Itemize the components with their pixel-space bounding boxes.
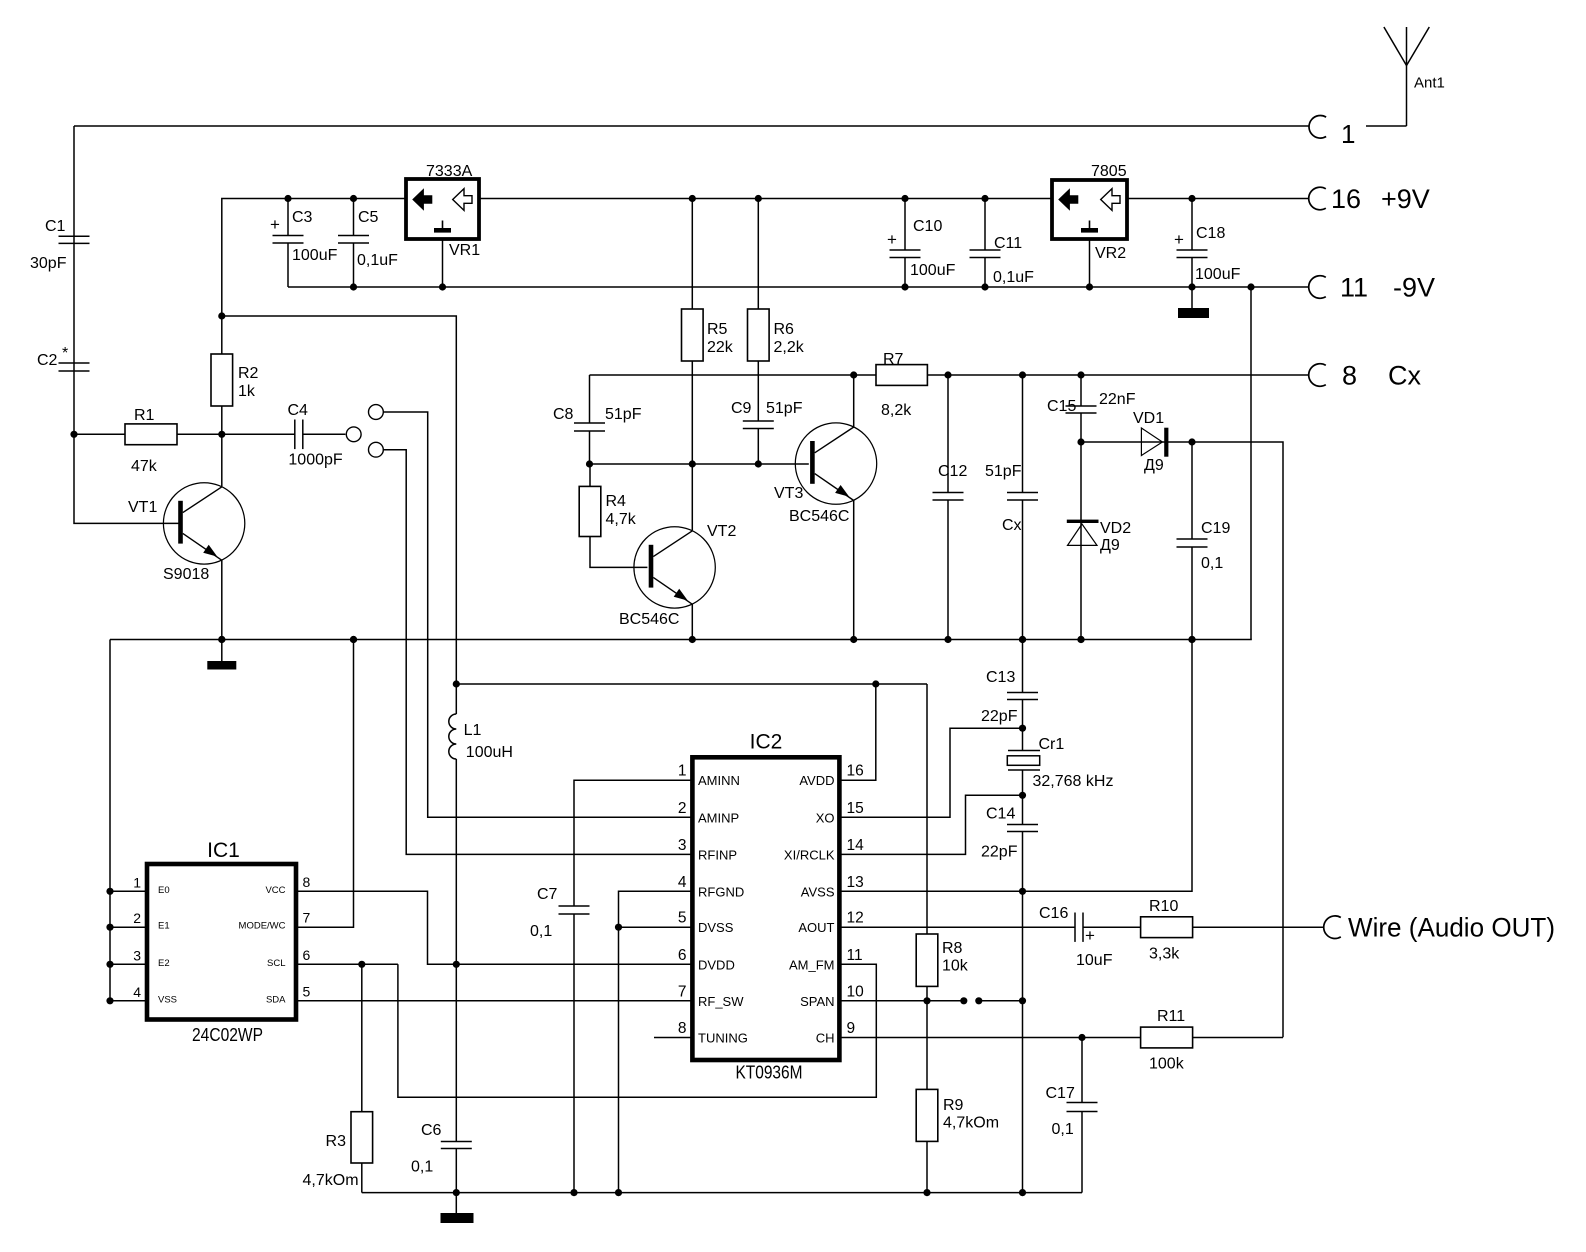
node VD1 cathode / C19 [1188,438,1195,445]
svg-text:L1: L1 [464,722,482,739]
svg-text:8: 8 [1342,361,1357,391]
capacitor C11 [970,199,1035,288]
node CH / C17 junction [1078,1034,1085,1041]
node connector 8 Cx [1309,361,1422,391]
svg-text:Cr1: Cr1 [1039,736,1065,753]
wire IC1 SDA to RF_SW [296,1000,692,1002]
svg-text:15: 15 [847,800,864,817]
node -9V vertical [1247,283,1254,290]
svg-text:Cx: Cx [1002,517,1022,534]
node R5 top [689,195,696,202]
wire IC1 VCC to DVDD node [296,891,456,964]
node Cx bottom [1019,636,1026,643]
wire IC1 SCL line [296,963,398,965]
node chain/SPAN junction [1019,997,1026,1004]
svg-text:1: 1 [133,874,141,890]
svg-text:5: 5 [303,983,311,999]
svg-text:22k: 22k [707,339,734,356]
wire bottom ground rail [362,1192,1082,1194]
pin 2 IC1 E1 [106,910,169,932]
wire VR1 ground pin [442,239,444,287]
svg-text:E2: E2 [158,958,170,969]
wire antenna line to connector 1 [74,125,1310,127]
svg-text:100k: 100k [1149,1056,1185,1073]
svg-text:BC546C: BC546C [789,508,849,525]
node C10 top [901,195,908,202]
node C18 top [1188,195,1195,202]
svg-text:22pF: 22pF [981,844,1018,861]
wire DVDD node to C6 [455,964,457,1141]
svg-text:10uF: 10uF [1076,952,1113,969]
svg-text:AVSS: AVSS [801,884,835,899]
svg-text:VR2: VR2 [1095,245,1126,262]
wire DVSS stub [619,926,693,928]
svg-text:R8: R8 [942,940,963,957]
wire SPAN line [839,1000,963,1002]
resistor R9 4,7kOm [916,1001,999,1193]
capacitor C5 [338,199,398,288]
svg-text:4,7k: 4,7k [606,511,637,528]
capacitor C9 [731,361,803,464]
node C15 bottom / VD1 anode [1077,438,1084,445]
pin 2 IC2 AMINP [678,800,739,826]
svg-text:R7: R7 [883,351,904,368]
wire RFGND/DVSS column [619,891,693,1192]
svg-text:4,7kOm: 4,7kOm [943,1115,999,1132]
svg-text:7333A: 7333A [426,163,473,180]
node connector 1 [1309,116,1355,150]
svg-text:SDA: SDA [266,994,286,1005]
svg-text:C14: C14 [986,806,1015,823]
svg-text:KT0936M: KT0936M [736,1063,803,1083]
node DVSS column bottom [615,1189,622,1196]
wire L1 bottom to DVDD node [455,759,457,964]
svg-text:0,1: 0,1 [1052,1121,1074,1138]
node pad lower [369,442,384,457]
wire CH line [839,1037,1140,1039]
transistor VT3 BC546C [774,423,877,525]
node MODE/WC rail [350,636,357,643]
svg-text:22pF: 22pF [981,708,1018,725]
node SCL/R3 junction [358,961,365,968]
svg-text:C4: C4 [288,402,309,419]
svg-text:XI/RCLK: XI/RCLK [784,847,835,862]
svg-text:S9018: S9018 [163,566,209,583]
crystal Cr1 32768 [1007,736,1113,790]
svg-text:C11: C11 [994,235,1022,252]
svg-text:9: 9 [847,1020,856,1037]
pin 7 IC2 RF_SW [678,983,744,1009]
svg-text:16: 16 [847,763,864,780]
node VT2 collector junction [689,460,696,467]
wire SCL route to AM_FM [398,964,876,1097]
regulator VR2 7805 [1052,163,1127,262]
svg-text:R4: R4 [606,493,627,510]
svg-text:7: 7 [303,910,311,926]
node AVDD branch [872,680,879,687]
svg-text:C5: C5 [358,209,379,226]
svg-text:R11: R11 [1157,1008,1185,1025]
wire pad lower to RFINP [383,450,692,855]
IC IC1 24C02WP [147,839,296,1045]
wire -9V to ground rail right vertical [1250,287,1252,640]
node C7 bottom [570,1189,577,1196]
svg-text:C10: C10 [913,218,942,235]
svg-text:7: 7 [678,983,687,1000]
svg-text:C13: C13 [986,669,1015,686]
svg-text:4: 4 [133,984,141,1000]
wire VT2 emitter to ground [691,604,693,640]
capacitor C19 [1177,442,1231,640]
node DVDD junction [453,961,460,968]
svg-text:C18: C18 [1196,225,1225,242]
svg-text:2: 2 [678,800,687,817]
wire R2 top to L1 column [222,316,456,684]
svg-text:100uH: 100uH [466,744,513,761]
capacitor Cx [1002,375,1038,640]
node C18 bottom [1188,283,1195,290]
resistor R4 4,7k [579,464,647,567]
svg-text:BC546C: BC546C [619,611,679,628]
node C11 bottom [981,283,988,290]
node C19/AVSS rail [1188,636,1195,643]
svg-text:6: 6 [678,947,687,964]
wire VT3 collector [853,375,855,427]
svg-text:R5: R5 [707,321,728,338]
node chain top rail [1019,636,1026,643]
svg-text:AMINP: AMINP [698,810,739,825]
capacitor C7 [530,886,590,1193]
node VR2 pin to -9V [1086,283,1093,290]
wire connector 1 to antenna [1366,125,1407,127]
svg-text:32,768 kHz: 32,768 kHz [1033,773,1114,790]
svg-text:100uF: 100uF [292,247,338,264]
svg-text:Д9: Д9 [1144,457,1164,474]
svg-text:14: 14 [847,837,865,854]
node VT1 emitter/ground [218,636,225,643]
pin 6 IC1 SCL [267,947,310,969]
pin 10 IC2 SPAN [800,983,864,1009]
wire 684 line [456,683,927,685]
diode VD2 D9 [1067,442,1131,640]
node R1/R2/C4 junction [218,431,225,438]
svg-text:AM_FM: AM_FM [789,957,835,972]
pin 13 IC2 AVSS [801,874,864,900]
resistor R3 4,7kOm [303,964,373,1192]
svg-text:1: 1 [1341,119,1355,149]
node chain/AVSS junction [1019,888,1026,895]
svg-text:C7: C7 [537,886,558,903]
svg-text:+: + [270,215,280,234]
capacitor C14 [981,806,1038,861]
wire R11 right [1193,1037,1283,1039]
node SPAN jumper left [960,997,967,1004]
IC IC2 KT0936M [692,731,839,1083]
capacitor C2 [37,345,90,371]
svg-text:C16: C16 [1039,905,1068,922]
wire left vertical [74,126,180,523]
pin 4 IC2 RFGND [678,874,744,900]
node XO junction [1019,725,1026,732]
node connector 16 +9V [1309,184,1430,214]
node VD2 bottom [1077,636,1084,643]
svg-text:CH: CH [816,1031,835,1046]
resistor R1 47k [74,407,222,475]
svg-text:7805: 7805 [1091,163,1127,180]
svg-text:VR1: VR1 [449,242,480,259]
svg-text:51pF: 51pF [605,406,642,423]
node pad upper [369,405,384,420]
resistor R11 100k [1141,1008,1193,1073]
svg-text:VT1: VT1 [128,499,157,516]
svg-text:16: 16 [1331,184,1361,214]
node L1 top junction [453,680,460,687]
svg-text:2: 2 [133,910,141,926]
node MODE/WC ground [350,636,357,643]
wire XO route [839,728,1022,817]
node C10 bottom [901,283,908,290]
svg-text:C9: C9 [731,400,752,417]
svg-text:IC1: IC1 [207,839,240,862]
wire MODE/WC vertical [296,640,354,928]
resistor R8 10k [916,934,969,1001]
svg-text:8: 8 [678,1020,687,1037]
svg-text:0,1: 0,1 [411,1159,433,1176]
pin 15 IC2 XO [816,800,864,826]
node C9 bottom [755,460,762,467]
wire +9V rail right segment [1127,198,1310,200]
node connector 11 -9V [1309,273,1435,303]
svg-text:-9V: -9V [1393,273,1435,303]
svg-text:47k: 47k [131,458,158,475]
svg-text:C12: C12 [938,463,967,480]
svg-text:0,1: 0,1 [1201,555,1223,572]
pin 1 IC1 E0 [106,874,169,896]
svg-text:2,2k: 2,2k [774,339,805,356]
transistor VT2 BC546C [619,523,736,628]
node SPAN jumper right [975,997,982,1004]
node VD2 rail [1077,636,1084,643]
svg-text:VT3: VT3 [774,485,803,502]
diode VD1 D9 [1081,410,1192,474]
svg-text:11: 11 [847,947,863,964]
svg-text:5: 5 [678,910,687,927]
svg-text:VSS: VSS [158,994,177,1005]
svg-text:51pF: 51pF [766,400,803,417]
svg-text:C19: C19 [1201,520,1230,537]
wire R10 to Wire connector [1193,926,1325,928]
ground below VT1 [207,640,236,670]
wire L1 top lead [455,684,457,714]
node R8 bottom / SPAN [923,997,930,1004]
svg-text:6: 6 [303,947,311,963]
svg-text:13: 13 [847,874,864,891]
node R9 bottom [923,1189,930,1196]
wire VT2-collector/VT3-base line [590,463,809,465]
svg-text:0,1: 0,1 [530,923,552,940]
pin 8 IC2 TUNING [678,1020,748,1046]
wire VD1 node to R11 vertical [1192,442,1283,1037]
node Cx top [1019,371,1026,378]
svg-text:51pF: 51pF [985,463,1022,480]
pin 8 IC1 VCC [265,874,310,896]
svg-text:10: 10 [847,983,865,1000]
capacitor C12 [933,375,1022,640]
pin 1 IC2 AMINN [678,763,740,789]
pin 5 IC2 DVSS [678,910,734,936]
wire XI/RCLK route [839,795,1022,854]
node C8 bottom [586,460,593,467]
svg-text:22nF: 22nF [1099,391,1136,408]
capacitor C13 [981,669,1038,725]
svg-text:11: 11 [1340,273,1368,303]
wire ground rail [110,639,1252,641]
wire C16 to R10 [1083,926,1141,928]
capacitor C16 10uF [1039,905,1113,969]
resistor R10 3,3k [1141,898,1193,963]
svg-text:R6: R6 [774,321,795,338]
node R1 left junction [70,431,77,438]
resistor R5 22k [682,199,734,362]
svg-text:R2: R2 [238,365,259,382]
svg-text:C8: C8 [553,406,574,423]
node R6 top [755,195,762,202]
svg-text:0,1uF: 0,1uF [993,269,1034,286]
node connector Wire Audio OUT [1324,913,1555,943]
node C15 top [1077,371,1084,378]
svg-text:1: 1 [678,763,687,780]
node C19 bottom [1188,636,1195,643]
node VT1 emitter [218,636,225,643]
capacitor C17 [1046,1038,1098,1193]
node pad middle [346,427,361,442]
svg-text:*: * [62,345,68,362]
svg-text:3: 3 [133,947,141,963]
node chain bottom [1019,1189,1026,1196]
svg-text:4: 4 [678,874,687,891]
capacitor C3 [270,199,338,288]
svg-text:SCL: SCL [267,958,285,969]
wire R5 to VT2 collector [691,361,693,530]
pin 8 IC2 TUNING stub [654,1037,692,1039]
svg-text:1000pF: 1000pF [288,452,342,469]
node VR1 pin to -9V [439,283,446,290]
pin 7 IC1 MODE/WC [239,910,311,932]
svg-text:C2: C2 [37,352,58,369]
svg-text:DVDD: DVDD [698,957,735,972]
svg-text:100uF: 100uF [910,262,956,279]
capacitor C1 [30,218,90,272]
svg-text:+: + [1085,926,1095,945]
wire C13 to Cr1 [1022,700,1024,751]
svg-text:Cx: Cx [1388,361,1421,391]
node VT3 collector to Cx line [850,371,857,378]
wire VT3 emitter to ground [853,500,855,639]
node VT2 emitter [689,636,696,643]
svg-text:AMINN: AMINN [698,773,740,788]
node R2 top junction [218,312,225,319]
node C5 bottom [350,283,357,290]
svg-text:C6: C6 [421,1122,442,1139]
svg-text:R1: R1 [134,407,155,424]
svg-text:R9: R9 [943,1097,964,1114]
pin 9 IC2 CH [816,1020,855,1046]
svg-text:C15: C15 [1047,398,1076,415]
svg-text:AVDD: AVDD [799,773,834,788]
pin 11 IC2 AM_FM [789,947,863,973]
wire +9V rail left segment [222,199,406,317]
ground below C18 [1178,287,1209,318]
svg-text:E0: E0 [158,885,170,896]
svg-text:DVSS: DVSS [698,920,734,935]
node C12 bottom [944,636,951,643]
resistor R2 1k [211,316,259,486]
ground below C6 [441,1193,474,1223]
wire -9V rail [288,286,1310,288]
capacitor C8 [553,375,642,464]
pin 3 IC1 E2 [106,947,169,969]
node C11 top [981,195,988,202]
svg-text:SPAN: SPAN [800,994,834,1009]
wire ground rail to IC1 pins [109,640,111,1001]
pin 5 IC1 SDA [266,983,311,1005]
node VT3 emitter [850,636,857,643]
wire C14 down chain [1022,832,1024,1193]
wire Cr1 to C14 [1022,770,1024,825]
pin 3 IC2 RFINP [678,837,737,863]
wire +9V rail mid segment [479,198,1052,200]
resistor R7 8,2k [876,351,927,419]
svg-text:MODE/WC: MODE/WC [239,921,286,932]
svg-text:Wire (Audio OUT): Wire (Audio OUT) [1348,913,1555,943]
svg-text:VT2: VT2 [707,523,736,540]
pin 12 IC2 AOUT [798,910,863,936]
svg-text:C1: C1 [45,218,66,235]
node C6 bottom [453,1189,460,1196]
svg-text:8,2k: 8,2k [881,402,912,419]
svg-text:3: 3 [678,837,687,854]
svg-text:30pF: 30pF [30,255,67,272]
wire SPAN jumper to chain [979,1000,1023,1002]
wire AOUT line [839,926,1075,928]
svg-text:E1: E1 [158,921,170,932]
node R7 right / C12 [944,371,951,378]
svg-text:0,1uF: 0,1uF [357,252,398,269]
svg-text:+9V: +9V [1381,184,1430,214]
wire AVSS route [839,640,1192,892]
capacitor C10 [887,199,956,288]
svg-text:C17: C17 [1046,1085,1075,1102]
wire VR2 ground pin [1089,239,1091,287]
wire DVDD stub [456,963,692,965]
pin 4 IC1 VSS [106,984,177,1006]
svg-text:RFGND: RFGND [698,884,744,899]
pin 14 IC2 XI/RCLK [784,837,864,863]
svg-text:100uF: 100uF [1195,266,1241,283]
capacitor C6 [411,1122,472,1193]
wire ground rail to C13 [1022,640,1024,693]
wire 684 to R8 [926,684,928,934]
capacitor C18 [1174,199,1241,288]
inductor L1 100uH [449,714,513,761]
svg-text:12: 12 [847,910,864,927]
svg-text:Д9: Д9 [1100,537,1120,554]
svg-text:4,7kOm: 4,7kOm [303,1172,359,1189]
svg-text:24C02WP: 24C02WP [192,1025,263,1045]
svg-text:TUNING: TUNING [698,1031,748,1046]
svg-text:AOUT: AOUT [798,920,834,935]
svg-text:VD2: VD2 [1100,520,1131,537]
